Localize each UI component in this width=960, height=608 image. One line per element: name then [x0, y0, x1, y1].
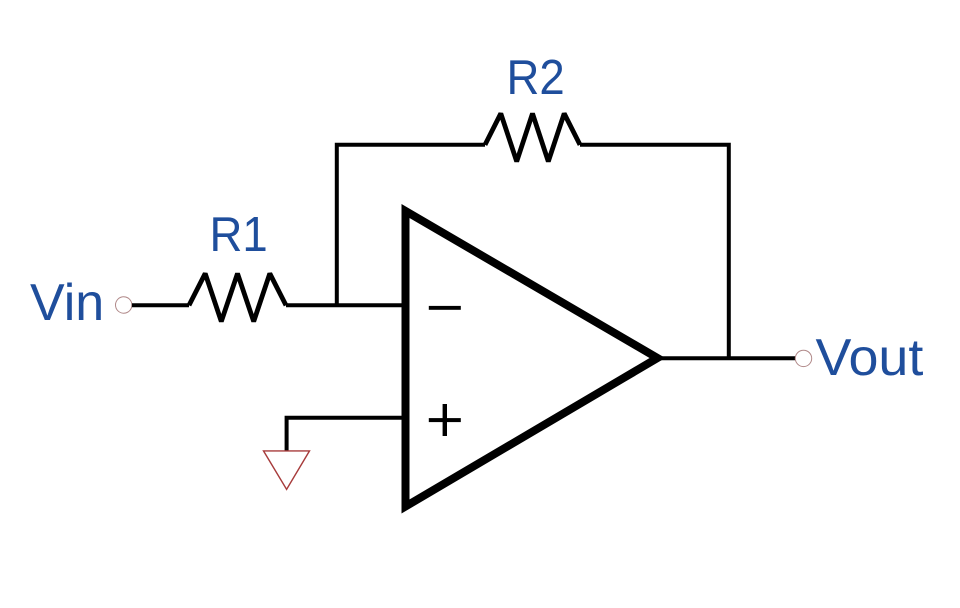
ground	[264, 451, 310, 490]
wire feedback right down to output	[580, 145, 729, 358]
svg-text:Vin: Vin	[30, 274, 104, 332]
resistor R2	[485, 114, 580, 162]
wire output	[657, 356, 796, 360]
node Vout terminal	[795, 350, 811, 366]
resistor R1	[189, 274, 286, 322]
svg-text:R1: R1	[210, 207, 268, 262]
op-amp plus input marker	[429, 418, 461, 422]
wire non-inverting input	[287, 418, 406, 451]
op-amp minus input marker	[429, 306, 461, 310]
svg-text:Vout: Vout	[816, 329, 924, 387]
wire R1 to inverting input	[286, 303, 406, 307]
svg-text:R2: R2	[507, 50, 565, 105]
op-amp U1	[406, 211, 658, 507]
wire feedback vertical left	[337, 145, 485, 305]
wire Vin to R1	[132, 303, 189, 307]
node Vin terminal	[116, 297, 132, 313]
